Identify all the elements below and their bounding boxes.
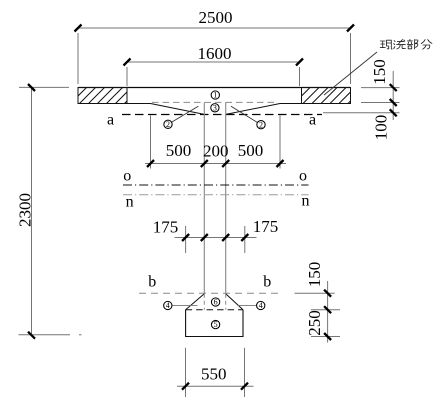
rebar circle 1 <box>211 91 219 100</box>
svg-text:250: 250 <box>305 310 324 336</box>
svg-text:175: 175 <box>253 217 279 236</box>
dimension 500 200 500 <box>145 116 286 169</box>
浇 <box>394 40 406 49</box>
svg-text:a: a <box>107 112 114 129</box>
svg-text:b: b <box>148 274 156 291</box>
cast-in-place hatched block left <box>71 88 141 104</box>
svg-text:2: 2 <box>259 120 263 129</box>
dimension 150 / 250 (right of footing) <box>295 281 341 343</box>
label 现浇部分 (cast-in-place part), drawn as strokes <box>380 39 432 49</box>
rebar circle 2 left with leader <box>164 106 198 129</box>
rebar circle 4 right with leader <box>238 301 265 310</box>
svg-text:5: 5 <box>214 320 218 329</box>
web left edge <box>203 102 205 293</box>
section line n-n <box>123 194 309 196</box>
svg-text:500: 500 <box>238 141 264 160</box>
svg-text:3: 3 <box>213 103 217 112</box>
web right edge <box>225 102 227 293</box>
section line b-b <box>139 292 281 294</box>
slab left end edge <box>77 88 79 104</box>
svg-text:4: 4 <box>259 301 263 310</box>
dimension 550 (footing width) <box>177 348 254 397</box>
slab right end edge <box>350 88 352 104</box>
rebar circle 2 right with leader <box>231 106 265 129</box>
footing outline <box>186 310 243 337</box>
部 <box>407 39 418 49</box>
footing top dashed <box>186 309 243 311</box>
hidden web edge right in transition <box>225 294 227 310</box>
svg-text:o: o <box>299 168 307 185</box>
svg-text:1: 1 <box>213 91 217 100</box>
slab bottom edge left solid <box>78 103 151 105</box>
footing transition slant right <box>226 294 243 310</box>
svg-text:6: 6 <box>214 298 218 307</box>
slab bottom joint dashed (precast) <box>152 101 278 103</box>
现 <box>380 40 392 49</box>
dimension 1600 (precast width) <box>127 62 300 86</box>
svg-text:n: n <box>302 193 310 210</box>
svg-text:175: 175 <box>153 218 179 237</box>
svg-text:2300: 2300 <box>16 193 35 227</box>
svg-text:4: 4 <box>166 301 170 310</box>
rebar circle 3 <box>211 103 219 112</box>
rebar circle 5 <box>211 320 219 329</box>
cast-in-place hatched block right <box>294 88 364 104</box>
dimension 150 / 100 (right of slab) <box>323 71 400 120</box>
leader line to cast-in-place label <box>324 52 377 95</box>
hidden web edge left in transition <box>203 294 205 310</box>
footing transition slant left <box>186 294 205 310</box>
svg-text:550: 550 <box>201 365 227 384</box>
svg-text:o: o <box>123 168 131 185</box>
分 <box>421 40 432 50</box>
svg-text:n: n <box>126 194 134 211</box>
section line a-a <box>122 114 322 116</box>
svg-text:150: 150 <box>370 59 389 85</box>
svg-text:1600: 1600 <box>198 44 232 63</box>
dimension 2300 (overall height, left) <box>19 87 82 335</box>
section line o-o <box>123 184 309 186</box>
svg-text:100: 100 <box>372 115 391 141</box>
svg-text:2: 2 <box>166 120 170 129</box>
bent bar right (haunch) <box>226 104 280 115</box>
svg-text:150: 150 <box>305 262 324 288</box>
svg-text:2500: 2500 <box>199 8 233 27</box>
svg-text:a: a <box>309 112 316 129</box>
dimension 175 175 <box>175 226 257 253</box>
dimension 2500 (top overall width) <box>78 28 351 84</box>
svg-text:500: 500 <box>166 141 192 160</box>
slab bottom edge right solid <box>280 103 351 105</box>
rebar circle 4 left with leader <box>164 301 198 310</box>
slab top edge <box>78 87 351 89</box>
rebar circle 6 <box>211 298 219 307</box>
svg-text:b: b <box>263 273 271 290</box>
svg-text:200: 200 <box>203 142 229 161</box>
bent bar left (haunch) <box>151 104 205 115</box>
